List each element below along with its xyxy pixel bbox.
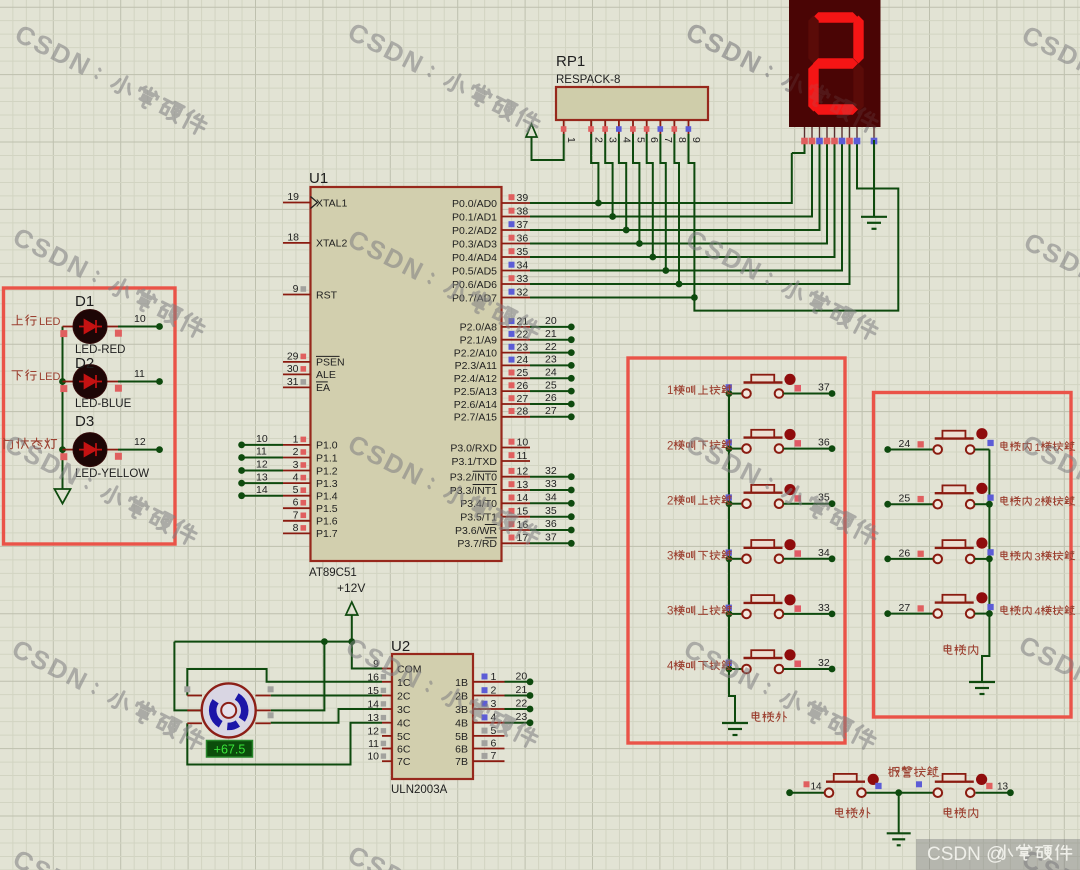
- svg-text:4: 4: [667, 661, 674, 673]
- svg-text:27: 27: [899, 602, 911, 614]
- U1 pin 7 (P1.6) stub: [283, 509, 338, 527]
- svg-text:XTAL2: XTAL2: [316, 238, 347, 250]
- U1 pin 13 (P3.3/INT1) stub: [450, 478, 575, 497]
- svg-text:P3.7/RD: P3.7/RD: [457, 538, 497, 550]
- wire U2 1B to net 20: [505, 670, 534, 685]
- svg-text:CSDN @: CSDN @: [927, 844, 1005, 865]
- watermark CSDN: [7, 633, 208, 755]
- svg-text:29: 29: [287, 350, 299, 362]
- wire D3 to net 12: [118, 436, 163, 453]
- svg-text:31: 31: [287, 376, 299, 388]
- RP1 value label RESPACK-8: [556, 74, 620, 86]
- label dianti-wai bottom: [836, 808, 870, 818]
- label car row 1: [1001, 442, 1075, 454]
- U1 pin 15 (P3.5/T1) stub: [460, 505, 574, 524]
- watermark CSDN: [681, 16, 882, 138]
- svg-text:10: 10: [517, 436, 529, 448]
- U1 pin 9 (RST) stub: [283, 283, 338, 301]
- wire hall-button common vertical: [726, 390, 735, 723]
- svg-text:12: 12: [517, 466, 529, 478]
- svg-text:P0.2/AD2: P0.2/AD2: [452, 225, 497, 237]
- U1 value label AT89C51: [309, 567, 357, 579]
- svg-text:27: 27: [545, 405, 557, 417]
- LED D3 (LED-YELLOW): [60, 433, 122, 467]
- U1 pin 27 (P2.6/A14) stub and wire net 26: [454, 392, 575, 411]
- svg-text:P2.7/A15: P2.7/A15: [454, 412, 497, 424]
- label dianti-nei bottom: [944, 808, 978, 818]
- svg-text:37: 37: [545, 532, 557, 544]
- red annotation box around LEDs: [4, 288, 176, 544]
- svg-text:23: 23: [517, 341, 529, 353]
- wire U2 3C to motor right-bottom coil: [271, 709, 382, 723]
- wire RP1 pin 9 to P0.7 bus: [689, 134, 698, 301]
- svg-text:P1.2: P1.2: [316, 465, 338, 477]
- label xia-xing LED: [12, 370, 60, 383]
- svg-text:10: 10: [256, 433, 268, 445]
- wire P0.7 to display dp (detour): [530, 140, 898, 311]
- svg-text:P2.2/A10: P2.2/A10: [454, 347, 497, 359]
- svg-text:36: 36: [545, 518, 557, 530]
- U2 pin 9 (COM) stub: [373, 658, 421, 676]
- U1 pin 10 (P3.0/RXD) stub: [450, 436, 530, 454]
- U1 pin 18 (XTAL2) stub: [283, 231, 347, 249]
- svg-text:10: 10: [134, 313, 146, 325]
- wire U2 2B to net 21: [505, 684, 534, 699]
- svg-text:3: 3: [667, 550, 673, 562]
- U1 pin 2 (P1.1) stub: [283, 446, 338, 464]
- wire RP1 pin 8 to P0.6 bus: [674, 134, 682, 287]
- svg-text:6: 6: [293, 497, 299, 509]
- ground symbol car buttons: [969, 682, 995, 694]
- svg-text:P3.1/TXD: P3.1/TXD: [451, 456, 497, 468]
- svg-text:24: 24: [899, 438, 911, 450]
- svg-text:28: 28: [517, 406, 529, 418]
- RP1 pin 6 stub: [644, 120, 660, 143]
- svg-text:22: 22: [545, 341, 557, 353]
- svg-text:6B: 6B: [455, 744, 468, 756]
- U1 pin 24 (P2.3/A11) stub and wire net 23: [455, 354, 575, 373]
- svg-text:2: 2: [293, 446, 299, 458]
- U1 pin 1 (P1.0) stub: [283, 433, 338, 451]
- svg-text:U1: U1: [309, 170, 328, 187]
- svg-text:P2.1/A9: P2.1/A9: [460, 335, 498, 347]
- watermark CSDN: [1017, 843, 1080, 870]
- wire LED common vertical to ground: [59, 327, 66, 490]
- svg-text:37: 37: [517, 219, 529, 231]
- push button hall row 2 (36): [726, 429, 801, 453]
- svg-text:33: 33: [517, 273, 529, 285]
- RP1 pin 3 stub: [602, 120, 618, 143]
- svg-text:AT89C51: AT89C51: [309, 567, 357, 579]
- svg-text:36: 36: [517, 232, 529, 244]
- svg-text:35: 35: [545, 505, 557, 517]
- svg-text:RST: RST: [316, 289, 338, 301]
- 7-segment display body: [789, 0, 881, 127]
- wire P1.0 net 10: [238, 433, 283, 448]
- wire U2 4C to motor left-bottom coil: [187, 723, 382, 765]
- svg-text:3: 3: [491, 698, 497, 710]
- wire display pin a jog: [792, 140, 805, 153]
- svg-text:30: 30: [287, 363, 299, 375]
- svg-text:7: 7: [293, 509, 299, 521]
- svg-text:EA: EA: [316, 382, 330, 394]
- U1 pin 29 (PSEN) stub: [283, 350, 345, 368]
- D2 labels: [75, 355, 132, 410]
- label hall row 4: [667, 550, 732, 562]
- U2 pin 1 (1B) stub: [455, 671, 504, 689]
- wire motor right-center tap to +12V rail: [271, 642, 325, 711]
- U2 pin 4 (4B) stub: [455, 712, 504, 730]
- svg-text:P1.5: P1.5: [316, 503, 338, 515]
- wire car-button common vertical: [982, 450, 993, 683]
- svg-text:3: 3: [293, 459, 299, 471]
- label door status light: [4, 438, 57, 449]
- wire RP1 pin 6 to P0.4 bus: [647, 134, 656, 260]
- watermark CSDN: [1019, 226, 1080, 348]
- svg-text:P1.3: P1.3: [316, 478, 338, 490]
- svg-text:P2.5/A13: P2.5/A13: [454, 386, 497, 398]
- svg-text:P1.4: P1.4: [316, 491, 338, 503]
- svg-text:P1.0: P1.0: [316, 440, 338, 452]
- label hall row 3: [667, 495, 732, 507]
- svg-text:1: 1: [565, 137, 577, 143]
- svg-text:25: 25: [899, 493, 911, 505]
- svg-text:P0.4/AD4: P0.4/AD4: [452, 252, 497, 264]
- push button car row 2 (25): [884, 483, 993, 509]
- svg-text:4B: 4B: [455, 718, 468, 730]
- U1 pin 39 (P0.0/AD0) stub: [452, 192, 530, 210]
- svg-text:P1.7: P1.7: [316, 528, 338, 540]
- svg-text:P3.0/RXD: P3.0/RXD: [450, 442, 497, 454]
- svg-text:XTAL1: XTAL1: [316, 197, 347, 209]
- U1 pin 26 (P2.5/A13) stub and wire net 25: [454, 379, 575, 398]
- svg-text:27: 27: [517, 393, 529, 405]
- svg-text:24: 24: [517, 354, 529, 366]
- svg-text:14: 14: [256, 484, 268, 496]
- wire RP1 pin 3 to P0.1 bus: [605, 134, 616, 220]
- attribution bar CSDN @xiaochang: [916, 839, 1080, 870]
- wire motor right-top coil to U2 2C: [271, 695, 382, 697]
- svg-text:8: 8: [293, 522, 299, 534]
- watermark CSDN: [341, 631, 542, 753]
- watermark CSDN: [8, 843, 209, 870]
- 7-segment digit 2 segments: [808, 12, 863, 114]
- wire +12V to U2 COM pin 9: [352, 642, 382, 669]
- wire motor left-top coil to U2 1C: [187, 669, 382, 696]
- svg-text:ALE: ALE: [316, 369, 336, 381]
- LED D1 (LED-RED): [60, 310, 122, 344]
- RP1 pin 4 stub: [616, 120, 632, 143]
- U1 pin 5 (P1.4) stub: [283, 484, 338, 502]
- svg-text:3C: 3C: [397, 704, 411, 716]
- svg-text:6C: 6C: [397, 744, 411, 756]
- svg-text:11: 11: [134, 368, 145, 380]
- push button car row 1 (24): [884, 428, 993, 454]
- LED D2 (LED-BLUE): [60, 365, 122, 399]
- RP1 pin 9 stub: [686, 120, 702, 143]
- wire hall row 5 to net 33: [783, 602, 835, 617]
- svg-text:25: 25: [545, 379, 557, 391]
- label dianti-wai (outside elevator): [752, 712, 786, 722]
- wire hall row 4 to net 34: [783, 547, 835, 562]
- svg-text:13: 13: [367, 712, 379, 724]
- D1 labels: [75, 293, 125, 356]
- U1 pin 14 (P3.4/T0) stub: [460, 492, 574, 511]
- wire +12V rail horizontal: [174, 638, 355, 645]
- wire +12V rail to motor left-center tap: [174, 642, 201, 711]
- U1 pin 35 (P0.4/AD4) stub: [452, 246, 530, 264]
- U1 pin 12 (P3.2/INT0) stub: [450, 465, 575, 484]
- push button hall row 1 (37): [726, 374, 801, 398]
- svg-text:12: 12: [256, 459, 268, 471]
- svg-text:37: 37: [818, 382, 830, 394]
- wire P0.6 to display segment 6: [530, 140, 850, 284]
- U1 pin 36 (P0.3/AD3) stub: [452, 232, 530, 250]
- svg-text:RESPACK-8: RESPACK-8: [556, 74, 620, 86]
- U1 pin 17 (P3.7/RD) stub: [457, 532, 574, 551]
- label car row 2: [1001, 496, 1075, 508]
- watermark CSDN: [681, 428, 882, 550]
- svg-text:4: 4: [293, 472, 299, 484]
- svg-text:LED-YELLOW: LED-YELLOW: [75, 468, 149, 480]
- U1 pin 30 (ALE) stub: [283, 363, 336, 381]
- U1 pin 19 (XTAL1) stub: [283, 191, 347, 209]
- svg-text:35: 35: [517, 246, 529, 258]
- svg-text:13: 13: [256, 471, 268, 483]
- svg-text:20: 20: [545, 315, 557, 327]
- svg-text:34: 34: [545, 492, 557, 504]
- svg-text:8: 8: [676, 137, 688, 143]
- U1 XTAL1 clock symbol: [311, 197, 318, 209]
- svg-text:23: 23: [516, 711, 528, 723]
- U1 pin 4 (P1.3) stub: [283, 472, 338, 490]
- U2 pin 11 (6C) stub: [368, 738, 411, 756]
- svg-text:LED: LED: [39, 371, 60, 383]
- svg-text:20: 20: [516, 670, 528, 682]
- svg-text:P1.6: P1.6: [316, 516, 338, 528]
- svg-text:P2.6/A14: P2.6/A14: [454, 399, 497, 411]
- U1 pin 25 (P2.4/A12) stub and wire net 24: [454, 367, 575, 386]
- U1 pin 33 (P0.6/AD6) stub: [452, 273, 530, 291]
- watermark CSDN: [10, 18, 211, 140]
- watermark CSDN: [1017, 428, 1080, 550]
- wire RP1 pin 7 to P0.5 bus: [660, 134, 669, 274]
- U2 pin 15 (2C) stub: [367, 685, 411, 703]
- svg-text:34: 34: [818, 547, 830, 559]
- wire hall row 6 to net 32: [783, 657, 835, 672]
- U1 pin 23 (P2.2/A10) stub and wire net 22: [454, 341, 575, 360]
- push button car row 4 (27): [884, 592, 993, 618]
- wire RP1 pin 4 to P0.2 bus: [619, 134, 630, 233]
- svg-text:3: 3: [1034, 551, 1040, 563]
- svg-text:1B: 1B: [455, 677, 468, 689]
- svg-text:33: 33: [818, 602, 830, 614]
- svg-text:18: 18: [287, 231, 299, 243]
- svg-text:26: 26: [899, 547, 911, 559]
- push button hall row 4 (34): [726, 539, 801, 563]
- wire P0.1 to display segment 1: [530, 140, 812, 217]
- U1 pin 16 (P3.6/WR) stub: [455, 518, 575, 537]
- svg-text:15: 15: [517, 506, 529, 518]
- svg-text:12: 12: [134, 436, 146, 448]
- RP1 pin 1 stub: [561, 120, 577, 143]
- ground arrow symbol in LED box: [55, 489, 71, 504]
- svg-text:7C: 7C: [397, 756, 411, 768]
- label hall row 5: [667, 606, 732, 618]
- U2 pin 13 (4C) stub: [367, 712, 411, 730]
- svg-text:14: 14: [517, 492, 529, 504]
- svg-text:9: 9: [690, 137, 702, 143]
- U2 value label ULN2003A: [391, 784, 448, 796]
- svg-text:P0.3/AD3: P0.3/AD3: [452, 238, 497, 250]
- wire hall row 2 to net 36: [783, 437, 835, 452]
- svg-text:2: 2: [491, 685, 497, 697]
- U1 pin 11 (P3.1/TXD) stub: [451, 450, 530, 468]
- svg-text:22: 22: [516, 698, 528, 710]
- U2 pin 6 (6B) stub: [455, 738, 504, 756]
- wire D2 to net 11: [118, 368, 163, 385]
- label shang-xing LED: [12, 315, 60, 328]
- svg-text:3: 3: [667, 606, 673, 618]
- svg-text:19: 19: [287, 191, 299, 203]
- svg-text:P2.0/A8: P2.0/A8: [460, 322, 498, 334]
- svg-text:2: 2: [1034, 497, 1040, 509]
- svg-text:7: 7: [491, 750, 497, 762]
- svg-text:14: 14: [811, 782, 823, 793]
- ground symbol below display: [861, 217, 887, 229]
- label hall row 1: [667, 385, 732, 397]
- D3 labels: [75, 413, 149, 480]
- svg-text:21: 21: [516, 684, 528, 696]
- U2 pin 3 (3B) stub: [455, 698, 504, 716]
- svg-text:P2.3/A11: P2.3/A11: [455, 360, 498, 372]
- svg-text:+12V: +12V: [337, 581, 365, 595]
- push button hall row 5 (33): [726, 594, 801, 618]
- svg-text:PSEN: PSEN: [316, 357, 345, 369]
- red annotation box hall call buttons: [628, 358, 845, 743]
- wire alarm center junction: [867, 789, 934, 796]
- svg-text:10: 10: [367, 751, 379, 763]
- wire P0.3 to display segment 3: [530, 140, 827, 244]
- push button car row 3 (26): [884, 538, 993, 564]
- wire P0.5 to display segment 5: [530, 140, 842, 271]
- watermark CSDN: [681, 16, 882, 138]
- svg-text:+67.5: +67.5: [214, 743, 246, 757]
- watermark CSDN: [1014, 629, 1080, 751]
- svg-text:11: 11: [368, 738, 379, 750]
- svg-text:38: 38: [517, 205, 529, 217]
- U1 pin 22 (P2.1/A9) stub and wire net 21: [460, 328, 575, 347]
- svg-text:34: 34: [517, 259, 529, 271]
- svg-text:23: 23: [545, 354, 557, 366]
- svg-text:14: 14: [367, 699, 379, 711]
- wire hall row 3 to net 35: [783, 492, 835, 507]
- svg-text:11: 11: [256, 446, 267, 458]
- U1 pin 32 (P0.7/AD7) stub: [452, 286, 530, 304]
- svg-text:39: 39: [517, 192, 529, 204]
- watermark CSDN: [343, 839, 544, 870]
- svg-text:LED-BLUE: LED-BLUE: [75, 398, 132, 410]
- U1 pin 6 (P1.5) stub: [283, 497, 338, 515]
- U1 pin 34 (P0.5/AD5) stub: [452, 259, 530, 277]
- U1 pin 8 (P1.7) stub: [283, 522, 338, 540]
- label car row 4: [1001, 606, 1075, 618]
- watermark CSDN: [681, 223, 882, 345]
- svg-text:D2: D2: [75, 355, 94, 372]
- watermark CSDN: [343, 428, 544, 550]
- U1 pin 37 (P0.2/AD2) stub: [452, 219, 530, 237]
- svg-text:6: 6: [491, 738, 497, 750]
- resistor pack RP1 reference label: [556, 53, 585, 70]
- U1 pin 21 (P2.0/A8) stub and wire net 20: [460, 315, 575, 334]
- svg-text:RP1: RP1: [556, 53, 585, 70]
- svg-text:5: 5: [635, 137, 647, 143]
- display pin stubs and state squares: [801, 127, 877, 144]
- svg-text:5B: 5B: [455, 731, 468, 743]
- RP1 pin 2 stub: [588, 120, 604, 143]
- U2 pin 10 (7C) stub: [367, 751, 411, 769]
- U1 reference label: [309, 170, 328, 187]
- svg-text:7: 7: [662, 137, 674, 143]
- watermark CSDN: [343, 223, 544, 345]
- push button hall row 6 (32): [726, 649, 801, 673]
- U2 pin 14 (3C) stub: [367, 699, 411, 717]
- svg-text:D3: D3: [75, 413, 94, 430]
- svg-text:15: 15: [367, 685, 379, 697]
- wire P1.1 net 11: [238, 446, 283, 461]
- watermark CSDN: [8, 221, 209, 343]
- svg-text:6: 6: [648, 137, 660, 143]
- label alarm button: [888, 766, 938, 777]
- svg-text:4C: 4C: [397, 718, 411, 730]
- svg-text:2: 2: [593, 137, 605, 143]
- wire U2 3B to net 22: [505, 698, 534, 713]
- U1 pin 38 (P0.1/AD1) stub: [452, 205, 530, 223]
- U2 pin 5 (5B) stub: [455, 725, 504, 743]
- svg-text:32: 32: [545, 465, 557, 477]
- U1 pin 31 (EA) stub: [283, 376, 330, 394]
- svg-text:1: 1: [293, 433, 299, 445]
- svg-text:7B: 7B: [455, 756, 468, 768]
- wire P0.4 to display segment 4: [530, 140, 835, 257]
- svg-text:P3.6/WR: P3.6/WR: [455, 525, 497, 537]
- svg-text:1: 1: [667, 385, 673, 397]
- U2 pin 2 (2B) stub: [455, 685, 504, 703]
- svg-text:24: 24: [545, 367, 557, 379]
- U2 pin 7 (7B) stub: [455, 750, 504, 768]
- red annotation box car buttons: [874, 393, 1072, 718]
- wire P1.3 net 13: [238, 471, 283, 486]
- label dianti-nei (inside elevator): [944, 645, 978, 655]
- svg-text:LED: LED: [39, 316, 60, 328]
- svg-text:P3.2/INT0: P3.2/INT0: [450, 472, 497, 484]
- wire P0.0 to display segment 0: [530, 153, 792, 203]
- svg-text:ULN2003A: ULN2003A: [391, 784, 448, 796]
- svg-text:P2.4/A12: P2.4/A12: [454, 373, 497, 385]
- ground symbol hall buttons: [722, 723, 748, 735]
- wire D1 to net 10: [118, 313, 163, 330]
- power symbol +12V: [337, 581, 365, 642]
- svg-text:12: 12: [367, 725, 379, 737]
- svg-text:2: 2: [667, 495, 673, 507]
- U1 pin 28 (P2.7/A15) stub and wire net 27: [454, 405, 575, 424]
- RP1 pin 5 stub: [630, 120, 646, 143]
- push button alarm outside: [786, 774, 881, 797]
- watermark CSDN: [1017, 19, 1080, 141]
- svg-text:3: 3: [607, 137, 619, 143]
- svg-text:5: 5: [293, 484, 299, 496]
- svg-text:11: 11: [517, 450, 528, 462]
